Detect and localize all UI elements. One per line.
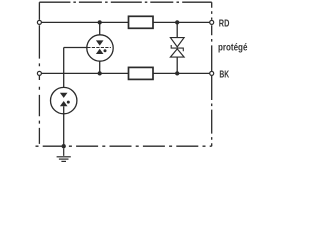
resistor R2 (BK line) (129, 67, 154, 79)
protected-zone border bottom (36, 145, 212, 147)
wire stem RD junction to gas tube F1 (99, 22, 101, 40)
gas tube F1 gas-filled dot (104, 49, 107, 52)
protected-zone border right middle piece (211, 25, 213, 71)
ground symbol (57, 148, 71, 161)
gas arrester F2 bottom electrode arrow (60, 101, 68, 106)
wire gas arrester F2 to ground junction (63, 106, 65, 146)
svg-text:RD: RD (219, 19, 230, 30)
wire RD left segment (39, 21, 128, 23)
gas arrester F2 top electrode arrow (60, 93, 68, 98)
junction RD / gas tube F1 (98, 20, 102, 24)
terminal right BK (210, 71, 214, 75)
terminal left RD (37, 20, 41, 24)
suppressor diode V1 lower triangle (170, 49, 184, 57)
wire BK right segment (153, 72, 212, 74)
gas arrester F2 body (51, 87, 77, 113)
suppressor diode V1 zener bar with ticks (171, 45, 183, 51)
protected-zone border right lower piece (211, 76, 213, 146)
wire suppressor diode V1 to BK junction (176, 57, 178, 73)
terminal left BK (37, 71, 41, 75)
gas tube F1 bottom electrode arrow (96, 49, 104, 54)
protected-zone border left middle piece (38, 25, 40, 71)
wire stem RD junction to suppressor diode V1 (176, 22, 178, 37)
protected-zone border right (211, 2, 213, 20)
wire middle-electrode tap vertical (crosses BK wire) (63, 48, 65, 93)
junction ground on border (62, 144, 66, 148)
protected-zone border left (38, 2, 40, 20)
svg-text:BK: BK (219, 70, 229, 81)
gas tube F1 middle electrode dashed line (87, 47, 111, 49)
junction BK / gas tube F1 (98, 71, 102, 75)
junction BK / suppressor diode (175, 71, 179, 75)
suppressor diode V1 upper triangle (170, 38, 184, 47)
gas arrester F2 gas-filled dot (67, 101, 70, 104)
resistor R1 (RD line) (129, 16, 154, 28)
junction RD / suppressor diode (175, 20, 179, 24)
wire middle-electrode tap horizontal (64, 47, 87, 49)
wire stem gas tube F1 to BK junction (99, 54, 101, 73)
protected-zone border left lower piece (38, 76, 40, 146)
gas discharge tube F1 body (87, 35, 113, 61)
wire BK left segment (39, 72, 128, 74)
wire RD right segment (153, 21, 212, 23)
gas tube F1 top electrode arrow (96, 40, 104, 45)
terminal right RD (210, 20, 214, 24)
protected-zone border top (39, 1, 211, 3)
svg-text:protégé: protégé (218, 42, 248, 53)
